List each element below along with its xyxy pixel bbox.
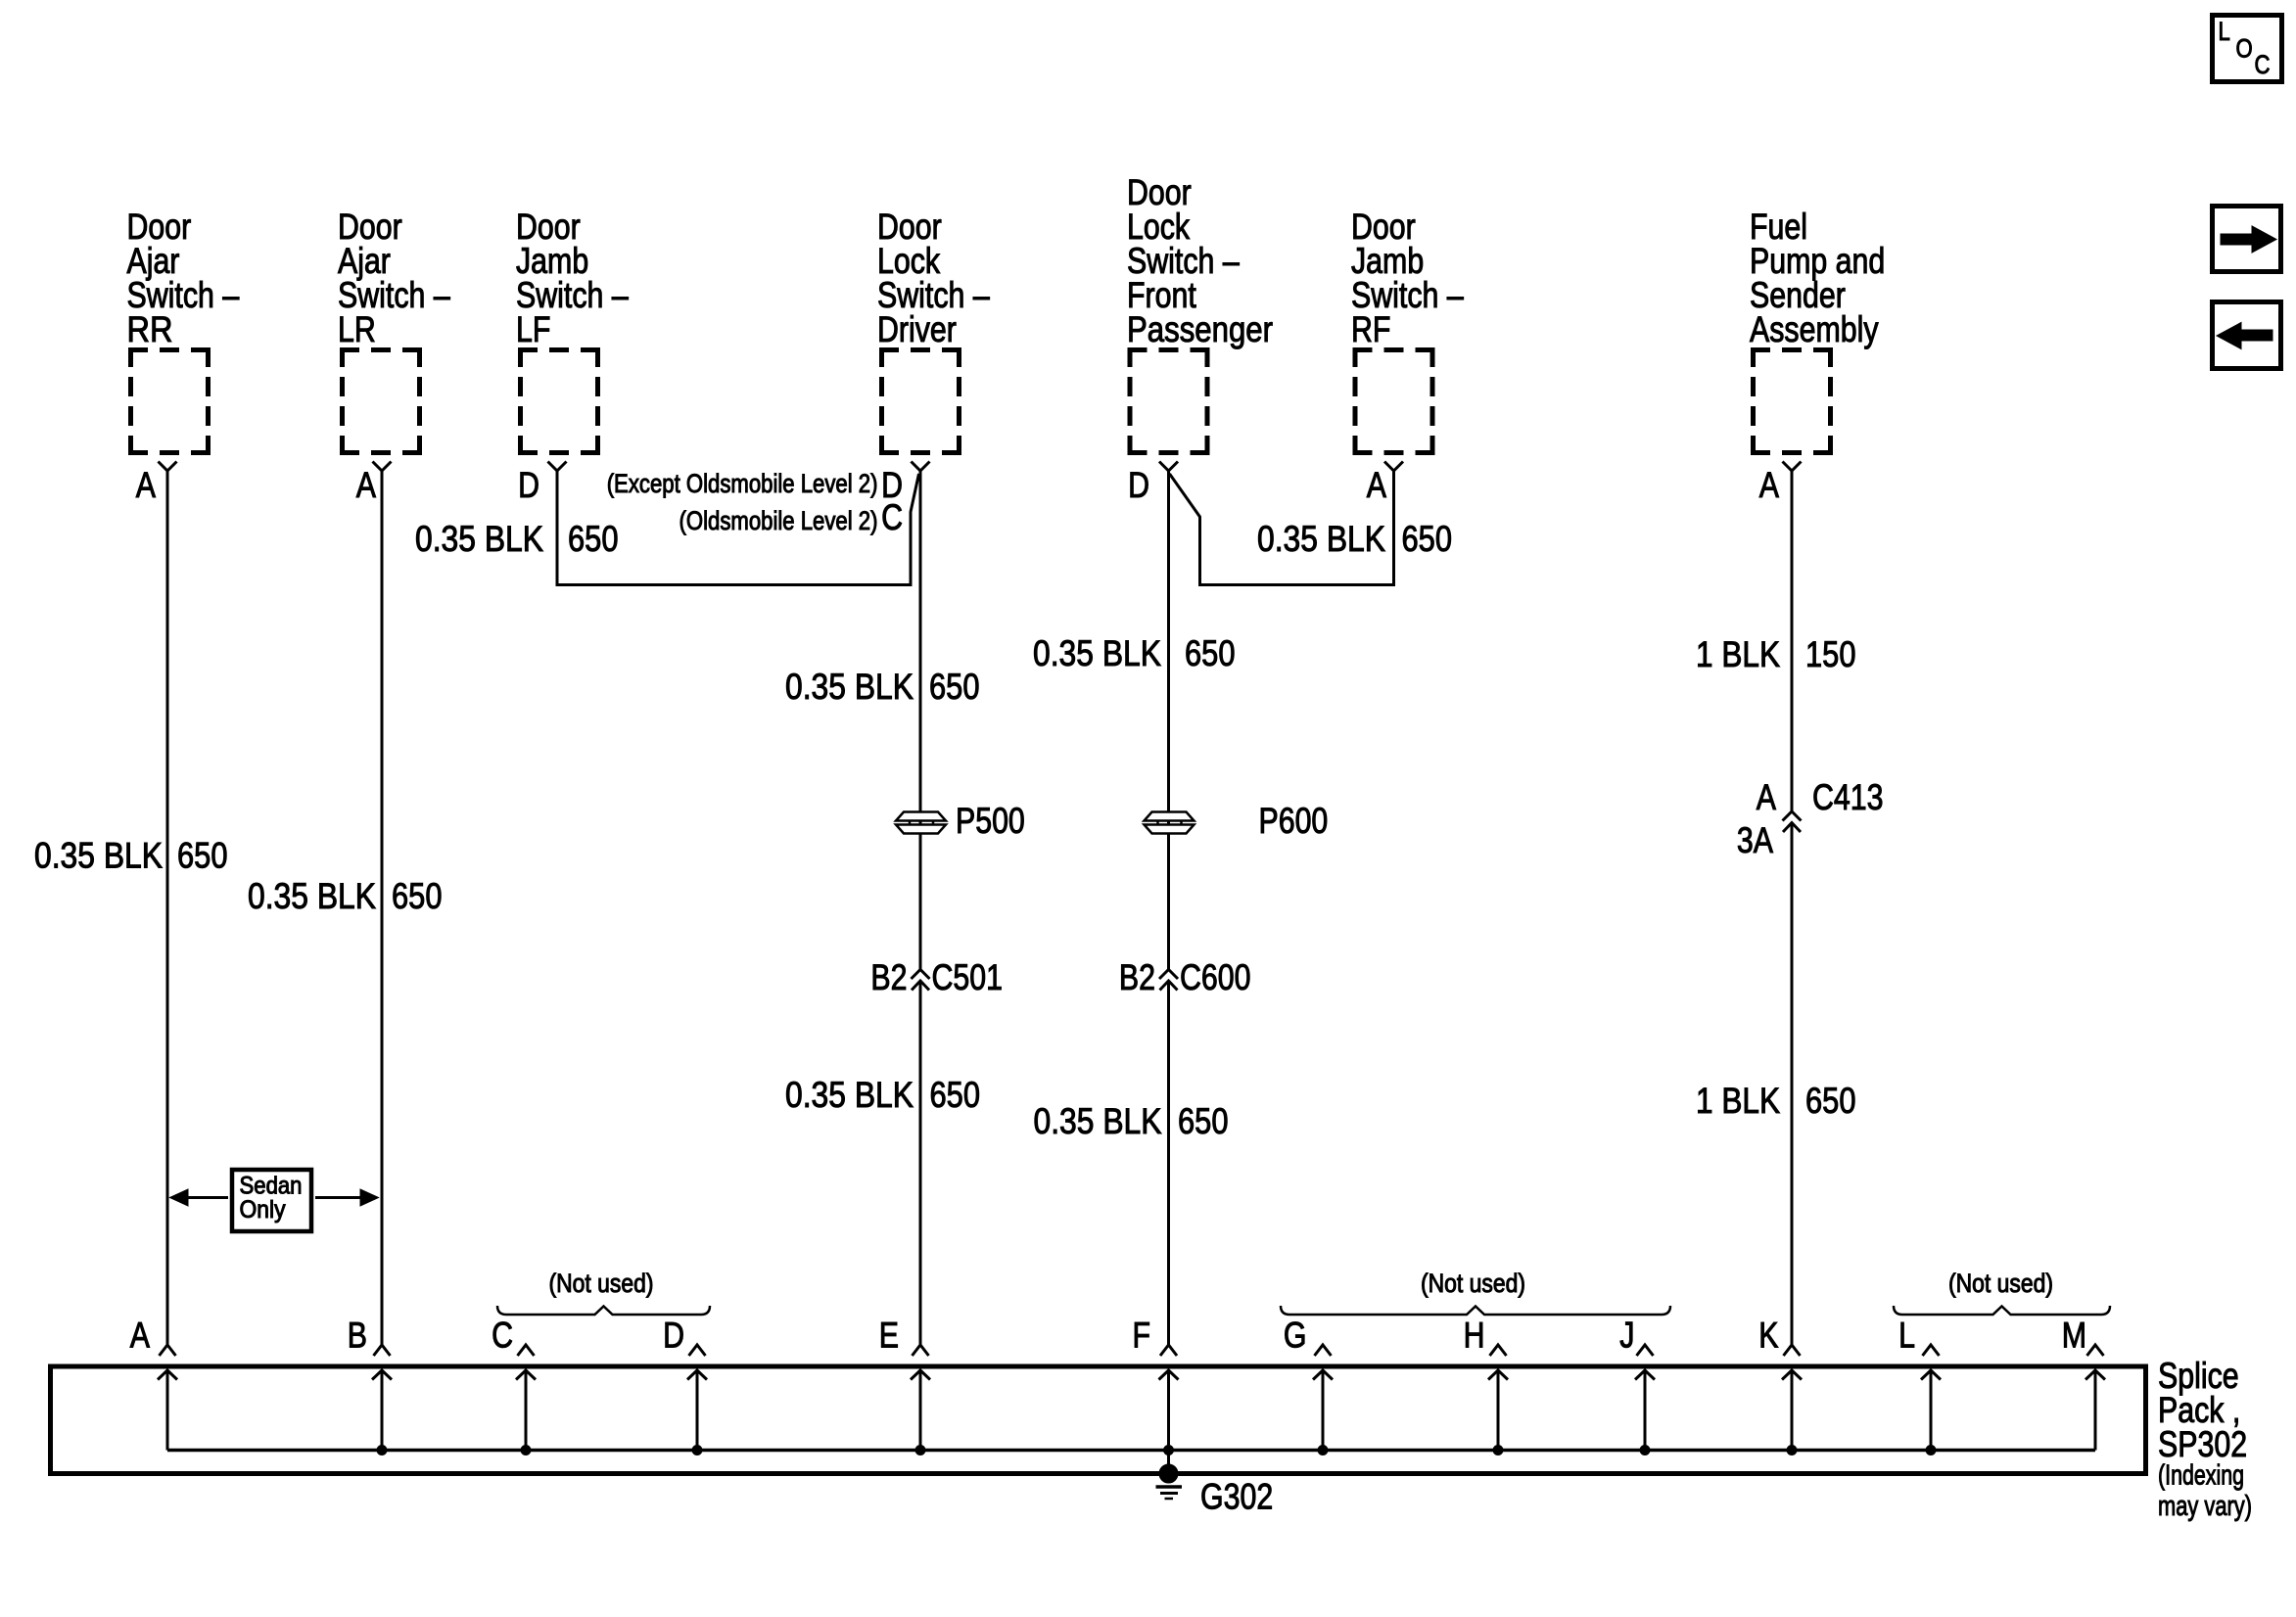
svg-text:3A: 3A bbox=[1737, 820, 1773, 860]
splice terminal C chevron bbox=[518, 1345, 535, 1356]
junction dot at terminal K bbox=[1787, 1446, 1797, 1455]
connector C501 symbol (pin B2) on Driver wire bbox=[912, 970, 930, 980]
svg-text:C501: C501 bbox=[932, 957, 1004, 997]
svg-text:D: D bbox=[663, 1316, 684, 1356]
junction dot at terminal D bbox=[692, 1446, 702, 1455]
splice terminal K chevron bbox=[1784, 1345, 1801, 1356]
svg-text:0.35 BLK: 0.35 BLK bbox=[1257, 519, 1385, 559]
splice terminal E chevron bbox=[913, 1345, 929, 1356]
right arrow icon bbox=[2213, 207, 2281, 272]
splice terminal G chevron bbox=[1315, 1345, 1332, 1356]
wire: LR pin A to splice terminal B (0.35 BLK 650) bbox=[381, 471, 384, 1345]
pin connector arrow of Fuel Pump and Sender Assembly bbox=[1783, 462, 1802, 472]
junction dot at terminal G bbox=[1318, 1446, 1328, 1455]
wire: Front Passenger pin D to splice terminal F, upper segment (0.35 BLK 650) bbox=[1167, 471, 1170, 970]
svg-text:B: B bbox=[348, 1316, 367, 1356]
splice terminal D internal arrow bbox=[696, 1371, 699, 1451]
splice terminal H internal arrow bbox=[1497, 1371, 1500, 1451]
junction dot at terminal L bbox=[1926, 1446, 1936, 1455]
svg-text:K: K bbox=[1758, 1316, 1778, 1356]
svg-text:0.35 BLK: 0.35 BLK bbox=[34, 836, 163, 876]
pin connector arrow of Door Lock Switch - Driver bbox=[912, 462, 930, 472]
wire: LF pin D to Driver pin C/D (0.35 BLK 650) bbox=[557, 471, 919, 585]
svg-text:0.35 BLK: 0.35 BLK bbox=[785, 1075, 914, 1115]
svg-text:F: F bbox=[1133, 1316, 1151, 1356]
svg-text:RR: RR bbox=[127, 309, 173, 349]
pin connector arrow of Door Ajar Switch - LR bbox=[373, 462, 392, 472]
svg-text:A: A bbox=[356, 465, 376, 505]
svg-text:(Except Oldsmobile Level 2): (Except Oldsmobile Level 2) bbox=[607, 469, 878, 498]
not used brace over terminals G-H-J bbox=[1281, 1306, 1670, 1315]
svg-text:M: M bbox=[2062, 1316, 2086, 1356]
component Door Jamb Switch - RF (dashed box + label) bbox=[1351, 207, 1464, 455]
junction dot at terminal J bbox=[1640, 1446, 1650, 1455]
svg-text:(Indexing: (Indexing bbox=[2158, 1460, 2244, 1492]
splice terminal J chevron bbox=[1637, 1345, 1654, 1356]
component Door Lock Switch - Front Passenger (dashed box + label) bbox=[1127, 172, 1273, 455]
svg-text:650: 650 bbox=[1402, 519, 1453, 559]
svg-text:(Not used): (Not used) bbox=[1948, 1269, 2053, 1298]
splice terminal J internal arrow bbox=[1644, 1371, 1647, 1451]
not used brace over terminals C-D bbox=[497, 1306, 710, 1315]
svg-text:L: L bbox=[2219, 17, 2230, 46]
svg-text:650: 650 bbox=[930, 1075, 981, 1115]
svg-text:E: E bbox=[879, 1316, 899, 1356]
pin connector arrow of Door Jamb Switch - LF bbox=[548, 462, 567, 472]
svg-text:P600: P600 bbox=[1259, 801, 1329, 841]
wire: RR pin A to splice terminal A (0.35 BLK 650) bbox=[166, 471, 169, 1345]
svg-text:(Oldsmobile Level 2): (Oldsmobile Level 2) bbox=[679, 506, 878, 535]
wire: Driver pin to splice terminal E, upper segment (0.35 BLK 650) bbox=[919, 471, 922, 970]
svg-text:may vary): may vary) bbox=[2158, 1491, 2252, 1522]
not used brace over terminals L-M bbox=[1894, 1306, 2110, 1315]
component Door Lock Switch - Driver (dashed box + label) bbox=[877, 207, 990, 455]
svg-text:A: A bbox=[1757, 777, 1776, 817]
splice terminal A chevron bbox=[160, 1345, 176, 1356]
svg-text:650: 650 bbox=[568, 519, 619, 559]
svg-text:650: 650 bbox=[1805, 1081, 1856, 1121]
connector P500 (in-line splice, Driver wire) bbox=[896, 812, 946, 821]
splice terminal D chevron bbox=[689, 1345, 706, 1356]
splice terminal G internal arrow bbox=[1322, 1371, 1325, 1451]
wire: Fuel Pump pin A to connector C413 (1 BLK 150) bbox=[1791, 471, 1794, 811]
splice terminal C internal arrow bbox=[525, 1371, 528, 1451]
svg-text:0.35 BLK: 0.35 BLK bbox=[785, 667, 914, 707]
junction dot at terminal H bbox=[1493, 1446, 1503, 1455]
svg-text:SP302: SP302 bbox=[2158, 1424, 2247, 1464]
svg-text:L: L bbox=[1898, 1316, 1915, 1356]
svg-text:C: C bbox=[881, 497, 903, 537]
pin connector arrow of Door Lock Switch - Front Passenger bbox=[1159, 462, 1178, 472]
svg-text:B2: B2 bbox=[870, 957, 907, 997]
svg-text:650: 650 bbox=[177, 836, 228, 876]
splice terminal F internal arrow bbox=[1167, 1371, 1170, 1451]
wire: RF pin A to Front Passenger pin D (0.35 BLK 650) bbox=[1170, 471, 1394, 585]
pin connector arrow of Door Jamb Switch - RF bbox=[1384, 462, 1403, 472]
junction dot at terminal E bbox=[915, 1446, 925, 1455]
splice terminal K internal arrow bbox=[1791, 1371, 1794, 1451]
sedan-only span arrow (right half) bbox=[315, 1196, 361, 1199]
svg-text:0.35 BLK: 0.35 BLK bbox=[1034, 1101, 1162, 1141]
svg-text:C413: C413 bbox=[1812, 777, 1884, 817]
Sedan Only note box bbox=[232, 1170, 311, 1231]
junction dot at terminal C bbox=[521, 1446, 531, 1455]
svg-text:A: A bbox=[1759, 465, 1779, 505]
svg-text:B2: B2 bbox=[1119, 957, 1155, 997]
splice pack label bbox=[2158, 1356, 2252, 1522]
svg-text:0.35 BLK: 0.35 BLK bbox=[248, 876, 376, 916]
splice terminal B internal arrow bbox=[381, 1371, 384, 1451]
svg-text:(Not used): (Not used) bbox=[1421, 1269, 1525, 1298]
left arrow icon bbox=[2213, 302, 2281, 369]
svg-text:RF: RF bbox=[1351, 309, 1390, 349]
svg-text:Assembly: Assembly bbox=[1750, 309, 1879, 349]
svg-text:650: 650 bbox=[929, 667, 980, 707]
svg-text:Passenger: Passenger bbox=[1127, 309, 1273, 349]
svg-text:G302: G302 bbox=[1200, 1477, 1273, 1517]
svg-text:0.35 BLK: 0.35 BLK bbox=[415, 519, 543, 559]
splice pack SP302 box bbox=[51, 1366, 2146, 1474]
splice terminal F chevron bbox=[1160, 1345, 1177, 1356]
wire: Driver pin to splice terminal E, lower segment (0.35 BLK 650) bbox=[919, 982, 922, 1346]
ground G302 symbol bbox=[1156, 1485, 1183, 1489]
svg-text:1 BLK: 1 BLK bbox=[1696, 1081, 1780, 1121]
svg-text:A: A bbox=[130, 1316, 150, 1356]
svg-text:C: C bbox=[2255, 50, 2271, 79]
splice pack internal bus bbox=[167, 1449, 2095, 1453]
ground G302 stub from bus to case bbox=[1167, 1451, 1170, 1474]
LOC reference icon bbox=[2213, 16, 2282, 82]
pin connector arrow of Door Ajar Switch - RR bbox=[159, 462, 177, 472]
component Door Ajar Switch - LR (dashed box + label) bbox=[338, 207, 450, 455]
component Door Jamb Switch - LF (dashed box + label) bbox=[516, 207, 629, 455]
svg-text:1 BLK: 1 BLK bbox=[1696, 634, 1780, 674]
splice terminal M internal arrow bbox=[2094, 1371, 2097, 1451]
sedan-only span arrow (left half) bbox=[186, 1196, 228, 1199]
component Door Ajar Switch - RR (dashed box + label) bbox=[127, 207, 240, 455]
splice terminal L chevron bbox=[1923, 1345, 1940, 1356]
svg-text:P500: P500 bbox=[956, 801, 1025, 841]
component Fuel Pump and Sender Assembly (dashed box + label) bbox=[1750, 207, 1885, 455]
connector P600 (in-line splice, Front Passenger wire) bbox=[1145, 812, 1195, 821]
svg-text:150: 150 bbox=[1805, 634, 1856, 674]
splice terminal A internal arrow bbox=[166, 1371, 169, 1451]
svg-text:A: A bbox=[136, 465, 156, 505]
splice terminal L internal arrow bbox=[1930, 1371, 1933, 1451]
svg-text:D: D bbox=[1128, 465, 1149, 505]
svg-text:650: 650 bbox=[392, 876, 443, 916]
svg-text:H: H bbox=[1464, 1316, 1485, 1356]
splice terminal E internal arrow bbox=[919, 1371, 922, 1451]
svg-text:0.35 BLK: 0.35 BLK bbox=[1033, 633, 1161, 673]
svg-text:D: D bbox=[518, 465, 539, 505]
splice terminal H chevron bbox=[1490, 1345, 1507, 1356]
svg-text:O: O bbox=[2236, 34, 2253, 64]
svg-text:Driver: Driver bbox=[877, 309, 957, 349]
ground G302 junction dot bbox=[1159, 1464, 1178, 1483]
svg-text:LR: LR bbox=[338, 309, 376, 349]
svg-text:Only: Only bbox=[240, 1196, 286, 1224]
wire: Front Passenger pin D to splice terminal F, lower segment (0.35 BLK 650) bbox=[1167, 982, 1170, 1346]
svg-text:C: C bbox=[492, 1316, 513, 1356]
splice terminal M chevron bbox=[2087, 1345, 2104, 1356]
svg-text:(Not used): (Not used) bbox=[549, 1269, 654, 1298]
svg-text:C600: C600 bbox=[1180, 957, 1251, 997]
svg-text:G: G bbox=[1284, 1316, 1307, 1356]
connector C600 symbol (pin B2) on Front Passenger wire bbox=[1159, 970, 1178, 980]
svg-text:650: 650 bbox=[1178, 1101, 1229, 1141]
svg-text:LF: LF bbox=[516, 309, 550, 349]
connector C413 symbol (pin A / 3A) on Fuel Pump wire bbox=[1783, 811, 1802, 821]
svg-text:J: J bbox=[1619, 1316, 1634, 1356]
svg-text:A: A bbox=[1367, 465, 1386, 505]
svg-text:650: 650 bbox=[1185, 633, 1236, 673]
junction dot at terminal B bbox=[377, 1446, 387, 1455]
junction dot at terminal F bbox=[1164, 1446, 1174, 1455]
splice terminal B chevron bbox=[374, 1345, 391, 1356]
wire: connector C413 to splice terminal K (1 BLK 650) bbox=[1791, 823, 1794, 1346]
